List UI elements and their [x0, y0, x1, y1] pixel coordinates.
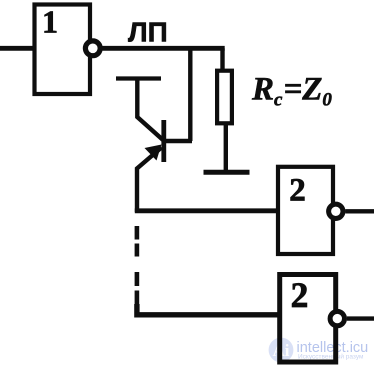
svg-text:Rc=Z0: Rc=Z0: [251, 71, 332, 110]
wire down to resistor Rc: [220, 48, 224, 71]
inversion bubble gate 1: [85, 41, 100, 56]
wire gate 2 (top) output: [345, 209, 374, 213]
inversion bubble gate 2 (top): [329, 204, 343, 218]
wire gate 1 output (ЛП line): [103, 46, 225, 51]
transistor VT1 emitter lead: [137, 148, 162, 213]
resistor Rc: [217, 71, 232, 124]
watermark intellect.icu logo: [269, 338, 294, 363]
transistor VT1 base bar: [161, 120, 166, 162]
gate 2 (bottom) box: [280, 275, 336, 363]
wire ЛП line down to transistor base: [188, 48, 192, 141]
ground: [204, 170, 250, 175]
wire resistor to ground: [224, 123, 228, 171]
inversion bubble gate 2 (bottom): [330, 311, 344, 325]
svg-text:2: 2: [291, 275, 309, 315]
svg-text:2: 2: [289, 173, 306, 209]
transistor VT1 emitter arrow (PNP): [145, 145, 162, 161]
svg-text:ЛП: ЛП: [128, 17, 168, 48]
dashed wire down: [135, 226, 140, 304]
wire gate 2 (bottom) output: [347, 316, 374, 320]
transistor VT1 base lead: [164, 139, 192, 143]
wire input to gate 1: [0, 46, 34, 51]
gate 2 (top) box: [278, 167, 333, 254]
transistor VT1 collector lead: [137, 80, 163, 140]
wire corner to bottom gate input: [137, 304, 279, 315]
wire emitter to gate 2 input: [135, 208, 278, 213]
transistor VT1 collector top stub: [116, 76, 161, 80]
svg-text:1: 1: [42, 4, 58, 40]
gate 1 box: [35, 5, 91, 95]
svg-text:Искусственный разум: Искусственный разум: [298, 353, 364, 361]
